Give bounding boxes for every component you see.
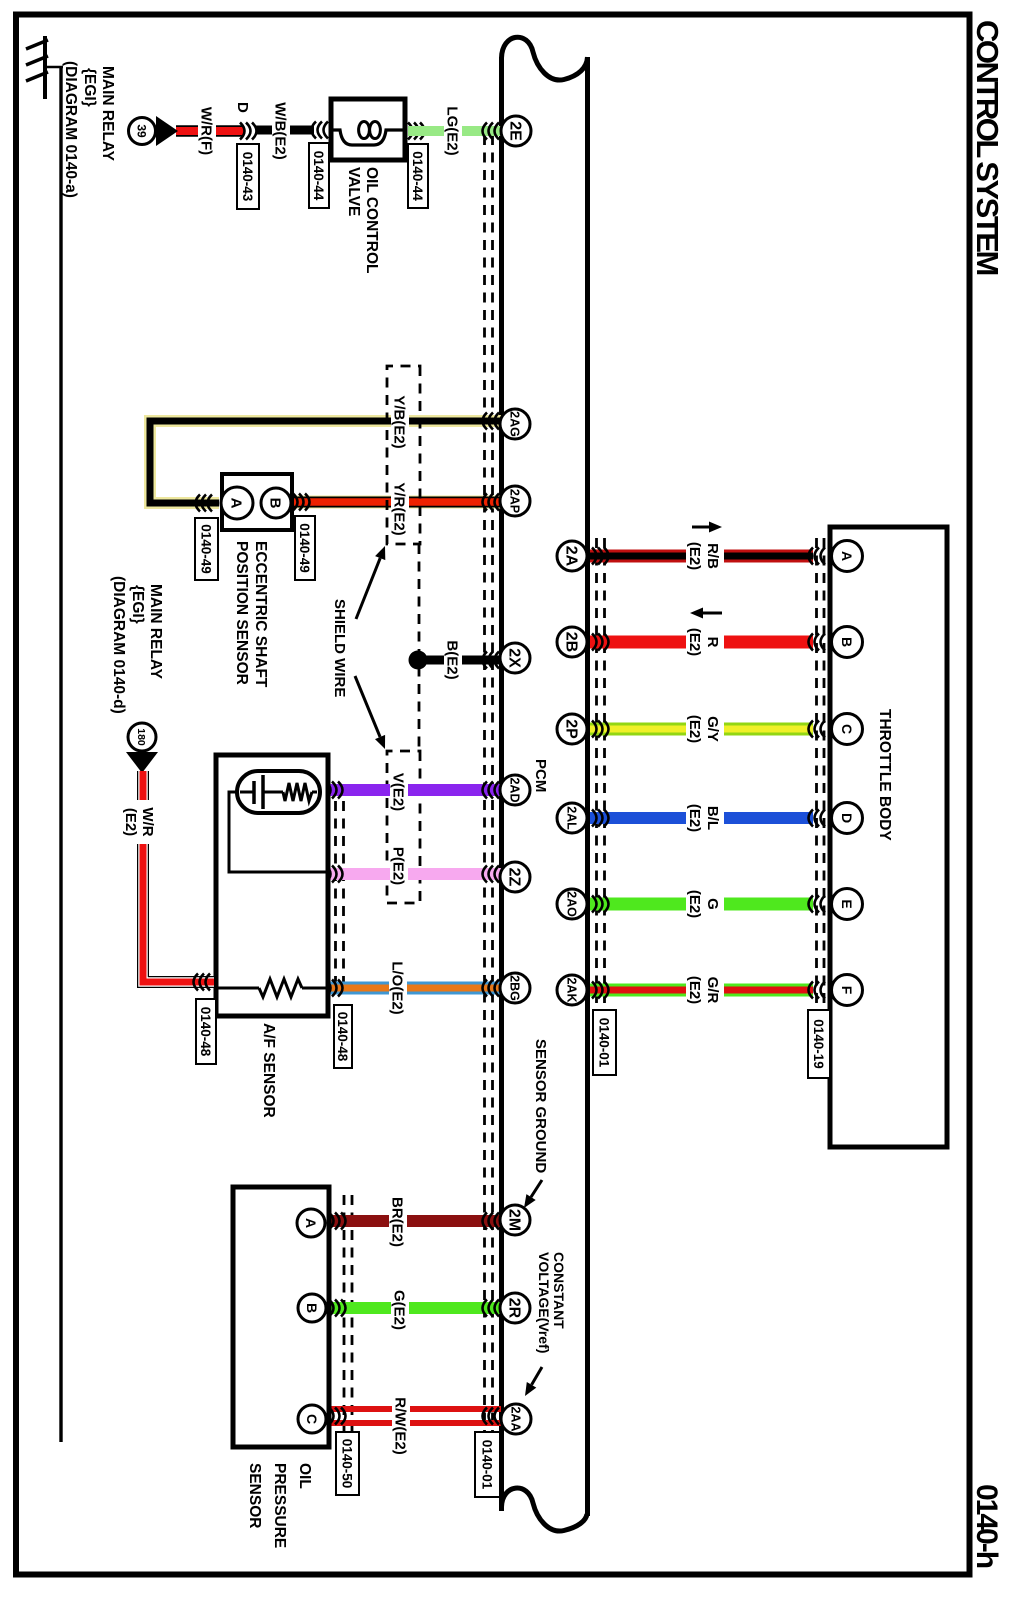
wire W/R(F) red segment (176, 125, 244, 137)
ref box 0140-49 pin A side (195, 518, 218, 580)
connector chevrons G/Y at throttle body (809, 721, 826, 738)
connector chevrons at sensor pin A (196, 495, 213, 512)
svg-text:2AO: 2AO (565, 891, 579, 917)
wire BR(E2) brown (322, 1215, 501, 1227)
svg-text:(E2): (E2) (686, 976, 703, 1004)
svg-text:G: G (704, 898, 721, 910)
svg-text:MAIN RELAY: MAIN RELAY (147, 584, 164, 680)
wire G/Y(E2) throttle (590, 723, 813, 736)
svg-text:0140-48: 0140-48 (198, 1007, 213, 1057)
PCM terminal 2AA (501, 1404, 531, 1434)
svg-text:W/B(E2): W/B(E2) (272, 102, 289, 160)
oil control valve box (331, 99, 405, 160)
label BR(E2) (389, 1194, 407, 1250)
connector chevrons at A/F capsule (326, 782, 343, 799)
svg-text:(DIAGRAM 0140-d): (DIAGRAM 0140-d) (110, 576, 127, 714)
wire B/L(E2) throttle (590, 812, 813, 824)
PCM terminal 2X (500, 643, 530, 673)
PCM terminal 2AG (500, 409, 530, 439)
svg-text:2M: 2M (505, 1209, 522, 1231)
arrow sensor ground to 2M (524, 1180, 542, 1208)
throttle body connector dashed line 2 (815, 538, 818, 1078)
svg-text:VOLTAGE(Vref): VOLTAGE(Vref) (536, 1252, 552, 1353)
PCM bottom connector dashed line 1 (491, 135, 494, 1434)
svg-text:(E2): (E2) (686, 804, 703, 832)
svg-text:0140-49: 0140-49 (199, 524, 214, 574)
wire Y/R(E2) red-yellow (290, 496, 501, 509)
PCM top connector dashed line 2 (595, 538, 598, 1078)
connector chevrons at A/F L/O-pin (326, 980, 343, 997)
throttle body connector dashed line 1 (823, 538, 826, 1078)
shield wire box 2 (V,P) (387, 751, 420, 903)
ref box 0140-01 throttle PCM side (593, 1010, 616, 1075)
throttle body pin F (832, 975, 863, 1006)
svg-text:0140-h: 0140-h (970, 1484, 1003, 1568)
ref box 0140-49 pin B side (295, 516, 315, 580)
PCM terminal 2AP (500, 486, 530, 516)
svg-text:SENSOR: SENSOR (246, 1463, 263, 1528)
ref box 0140-48 upper side (334, 1005, 352, 1068)
connector chevrons W/R at A/F sensor (194, 974, 211, 991)
svg-text:VALVE: VALVE (345, 167, 362, 216)
svg-text:C: C (304, 1414, 320, 1424)
wire G(E2) green (322, 1302, 501, 1314)
wire R/W(E2) red-white (322, 1409, 501, 1423)
svg-text:2X: 2X (505, 648, 522, 668)
PCM terminal 2BG (500, 973, 530, 1003)
svg-text:B(E2): B(E2) (444, 640, 461, 679)
sensor pin A (221, 487, 253, 519)
connector chevrons B/L at PCM (592, 810, 609, 827)
connector chevrons at 2X (483, 652, 500, 669)
connector chevrons at oil sensor pin A (329, 1213, 346, 1230)
svg-text:G(E2): G(E2) (391, 1290, 408, 1330)
main relay note (0140-d) (110, 576, 164, 714)
svg-text:0140-19: 0140-19 (811, 1019, 826, 1069)
svg-text:D: D (234, 102, 251, 113)
label Y/B(E2) (391, 391, 409, 453)
label B/L (E2) (686, 796, 724, 840)
svg-text:F: F (839, 986, 855, 995)
shield wire box 1 (Y/B,Y/R) (387, 366, 420, 544)
connector chevrons at 2E (483, 123, 500, 140)
svg-text:P(E2): P(E2) (390, 847, 407, 885)
PCM terminal 2AD (500, 775, 530, 805)
A/F sensor capsule (237, 771, 320, 813)
svg-text:39: 39 (135, 124, 149, 138)
svg-text:L/O(E2): L/O(E2) (389, 961, 406, 1014)
svg-text:OIL: OIL (296, 1463, 313, 1489)
label G (E2) (686, 882, 724, 926)
svg-text:B: B (267, 498, 284, 509)
arrow to shield box 2 (355, 676, 385, 749)
connector chevrons R/B at throttle body (809, 548, 826, 565)
oil sensor pin A (297, 1209, 325, 1237)
svg-text:A: A (839, 551, 855, 561)
svg-text:0140-01: 0140-01 (597, 1018, 612, 1068)
ref box 0140-48 W/R side (196, 999, 216, 1064)
eccentric shaft position sensor box (222, 474, 292, 530)
label P(E2) (390, 842, 408, 890)
A/F internal resistor (218, 979, 326, 997)
svg-text:D: D (839, 813, 855, 823)
label W/R(F) (198, 102, 216, 160)
svg-text:2E: 2E (506, 121, 523, 141)
label G/R (E2) (686, 968, 724, 1012)
wire P(E2) pink (324, 868, 501, 880)
wire B(E2) black (424, 656, 501, 665)
PCM terminal 2P (557, 714, 587, 744)
oil pressure sensor connector dashed line 1 (351, 1195, 354, 1445)
connector chevrons at 2AG (483, 413, 500, 430)
svg-text:R/B: R/B (704, 543, 721, 569)
arrow constant voltage to 2AA (525, 1367, 542, 1396)
ground rail wire (59, 67, 62, 1442)
oil pressure sensor connector dashed line 2 (343, 1195, 346, 1445)
svg-text:A: A (303, 1218, 319, 1228)
ref box 0140-44 lower (309, 143, 329, 208)
arrow into terminal 39 (156, 116, 178, 146)
connector chevrons at A/F P-pin (326, 866, 343, 883)
svg-text:(E2): (E2) (122, 808, 139, 836)
connector chevrons at 2R (483, 1300, 500, 1317)
connector chevrons R at PCM (592, 634, 609, 651)
connector chevrons at 2Z (483, 866, 500, 883)
A/F capsule internals (capacitor + resistor) (240, 775, 317, 809)
arrow from terminal 180 (126, 752, 158, 773)
PCM terminal 2E (501, 116, 531, 146)
svg-text:LG(E2): LG(E2) (444, 106, 461, 155)
wire V(E2) violet (326, 784, 501, 796)
wire R(E2) throttle (590, 636, 813, 649)
connector chevrons at oil sensor pin B (329, 1300, 346, 1317)
svg-text:(E2): (E2) (686, 628, 703, 656)
svg-text:B/L: B/L (704, 806, 721, 830)
PCM box left wavy end (502, 37, 588, 80)
svg-text:2AL: 2AL (565, 806, 579, 830)
wire LG(E2) light green (408, 126, 501, 136)
svg-text:2BG: 2BG (508, 975, 522, 1001)
throttle body pin C (832, 714, 863, 745)
svg-text:G/R: G/R (704, 977, 721, 1004)
terminal circle 39 (129, 118, 156, 145)
oil pressure sensor box (233, 1187, 329, 1447)
svg-text:{EGI}: {EGI} (129, 585, 146, 624)
shield wire connecting dashed line (418, 544, 421, 751)
connector chevrons G at PCM (592, 896, 609, 913)
shield junction dot (409, 651, 428, 670)
svg-text:Y/B(E2): Y/B(E2) (391, 395, 408, 448)
arrow direction R (690, 608, 722, 619)
svg-text:0140-44: 0140-44 (410, 151, 425, 201)
PCM terminal 2A (557, 541, 587, 571)
svg-text:Y/R(E2): Y/R(E2) (391, 482, 408, 535)
svg-text:THROTTLE BODY: THROTTLE BODY (876, 709, 893, 841)
sensor pin B (261, 488, 291, 518)
connector chevrons at 2M (483, 1213, 500, 1230)
PCM box top edge (585, 57, 590, 1516)
svg-text:2P: 2P (562, 719, 579, 739)
svg-text:0140-43: 0140-43 (240, 152, 255, 202)
svg-text:ECCENTRIC SHAFT: ECCENTRIC SHAFT (252, 541, 269, 688)
connector chevrons at 2BG (483, 980, 500, 997)
svg-text:2AG: 2AG (508, 411, 522, 437)
connector chevrons at 2AP (483, 494, 500, 511)
svg-text:POSITION SENSOR: POSITION SENSOR (233, 541, 250, 685)
svg-text:2R: 2R (505, 1298, 522, 1319)
A/F sensor box (216, 755, 328, 1016)
oil sensor pin C (298, 1405, 326, 1433)
connector chevrons at sensor pin B (293, 494, 310, 511)
wire G/R(E2) throttle (590, 984, 813, 997)
label OIL CONTROL VALVE (345, 167, 380, 274)
throttle body pin B (832, 627, 863, 658)
label G/Y (E2) (686, 707, 724, 751)
connector chevrons G/R at PCM (592, 982, 609, 999)
svg-text:R: R (704, 637, 721, 648)
PCM terminal 2B (557, 627, 587, 657)
throttle body pin A (832, 541, 863, 572)
label W/B(E2) (272, 99, 290, 163)
svg-text:G/Y: G/Y (704, 716, 721, 742)
svg-text:0140-50: 0140-50 (340, 1439, 355, 1489)
svg-text:2AP: 2AP (508, 489, 522, 513)
svg-text:2AA: 2AA (509, 1406, 523, 1431)
svg-text:(E2): (E2) (686, 715, 703, 743)
connector chevrons R/B at PCM (592, 548, 609, 565)
svg-text:C: C (839, 724, 855, 734)
A/F sensor connector dashed line 2 (334, 801, 337, 993)
PCM terminal 2AK (557, 975, 587, 1005)
svg-text:{EGI}: {EGI} (81, 68, 98, 107)
wire W/R(E2) (143, 771, 214, 982)
svg-text:(DIAGRAM 0140-a): (DIAGRAM 0140-a) (62, 61, 79, 198)
label B(E2) (444, 636, 462, 684)
label G(E2) (391, 1285, 409, 1335)
svg-text:V(E2): V(E2) (390, 773, 407, 811)
connector chevrons below oil control valve (312, 122, 329, 139)
ref box 0140-50 (336, 1432, 359, 1495)
label V(E2) (390, 768, 408, 816)
svg-text:E: E (839, 899, 855, 908)
svg-text:B: B (839, 637, 855, 647)
svg-text:2AK: 2AK (565, 977, 579, 1002)
label ECCENTRIC SHAFT POSITION SENSOR (233, 541, 269, 688)
throttle body pin E (832, 889, 863, 920)
svg-text:0140-01: 0140-01 (480, 1440, 495, 1490)
ref box 0140-19 throttle side (808, 1010, 830, 1078)
label R (E2) (686, 620, 724, 664)
throttle body pin D (832, 803, 863, 834)
PCM terminal 2M (500, 1205, 530, 1235)
PCM box right wavy end (502, 1488, 588, 1531)
label LG(E2) (444, 103, 462, 159)
connector chevrons at 2AA (483, 1408, 500, 1425)
connector chevrons above oil control valve (408, 123, 425, 140)
svg-text:W/R: W/R (139, 807, 156, 836)
PCM top connector dashed line 1 (603, 538, 606, 1078)
wire W/B(E2) black segment (256, 126, 314, 135)
svg-text:B: B (304, 1303, 320, 1313)
ref box 0140-43 (237, 144, 259, 209)
oil control valve solenoid coil (333, 122, 403, 146)
main relay note (0140-a) (62, 61, 116, 198)
A/F capsule stub to V wire (318, 789, 330, 792)
svg-text:W/R(F): W/R(F) (198, 107, 215, 155)
wire Y/B(E2) yellow-black (150, 421, 501, 503)
svg-text:BR(E2): BR(E2) (389, 1197, 406, 1247)
svg-text:0140-49: 0140-49 (297, 523, 312, 573)
connector chevrons W/R(F)-W/B junction (240, 123, 257, 140)
label OIL PRESSURE SENSOR (246, 1463, 313, 1548)
svg-text:2A: 2A (562, 546, 579, 567)
PCM terminal 2Z (500, 862, 530, 892)
arrow direction R/B (692, 522, 722, 533)
svg-text:PRESSURE: PRESSURE (271, 1463, 288, 1548)
throttle body box (830, 527, 947, 1147)
svg-text:CONSTANT: CONSTANT (551, 1252, 567, 1329)
label Y/R(E2) (391, 478, 409, 540)
PCM terminal 2AL (557, 803, 587, 833)
connector chevrons at oil sensor pin C (329, 1408, 346, 1425)
connector chevrons G/R at throttle body (809, 982, 826, 999)
svg-text:SHIELD WIRE: SHIELD WIRE (331, 599, 348, 697)
svg-text:A/F SENSOR: A/F SENSOR (260, 1023, 277, 1118)
ref box 0140-44 upper (408, 144, 428, 208)
wire R/B(E2) throttle (590, 550, 813, 563)
A/F internal wire to P pin (229, 792, 326, 872)
svg-text:A: A (228, 498, 245, 509)
svg-text:SENSOR GROUND: SENSOR GROUND (532, 1039, 549, 1173)
svg-text:2AD: 2AD (508, 777, 522, 802)
oil sensor pin B (298, 1294, 326, 1322)
label CONSTANT VOLTAGE(Vref) (536, 1252, 567, 1353)
svg-text:PCM: PCM (532, 759, 549, 792)
ref box 0140-01 oil sensor side (475, 1432, 500, 1497)
label R/W(E2) (392, 1394, 410, 1458)
svg-text:(E2): (E2) (686, 542, 703, 570)
arrow to shield box 1 (356, 546, 385, 619)
svg-text:0140-48: 0140-48 (335, 1012, 350, 1062)
svg-text:MAIN RELAY: MAIN RELAY (99, 66, 116, 162)
PCM terminal 2AO (557, 889, 587, 919)
wire G(E2) throttle (590, 898, 813, 911)
PCM terminal 2R (500, 1293, 530, 1323)
connector chevrons at 2AD (483, 782, 500, 799)
svg-text:2B: 2B (562, 632, 579, 652)
connector chevrons B/L at throttle body (809, 810, 826, 827)
terminal circle 180 (128, 723, 156, 751)
PCM bottom connector dashed line 2 (483, 135, 486, 1434)
connector chevrons G at throttle body (809, 896, 826, 913)
svg-text:2Z: 2Z (505, 868, 522, 887)
connector chevrons G/Y at PCM (592, 721, 609, 738)
svg-text:(E2): (E2) (686, 890, 703, 918)
svg-text:OIL CONTROL: OIL CONTROL (363, 167, 380, 274)
label L/O(E2) (389, 958, 407, 1018)
svg-text:CONTROL SYSTEM: CONTROL SYSTEM (970, 20, 1005, 274)
svg-text:180: 180 (135, 728, 147, 746)
label R/B (E2) (686, 534, 724, 578)
A/F sensor connector dashed line 1 (342, 801, 345, 993)
ground symbol (26, 36, 63, 99)
label W/R (E2) (122, 800, 157, 844)
svg-text:0140-44: 0140-44 (311, 151, 326, 201)
PCM box bottom edge (499, 57, 504, 1511)
wire L/O(E2) blue-orange (324, 982, 501, 995)
connector chevrons R at throttle body (809, 634, 826, 651)
svg-text:R/W(E2): R/W(E2) (392, 1397, 409, 1455)
